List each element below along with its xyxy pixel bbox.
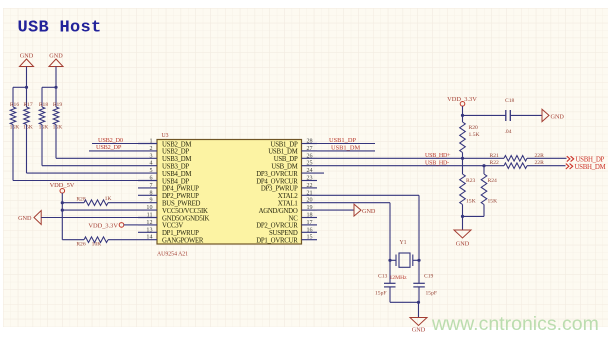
pin 20 XTAL1 [302,202,318,204]
svg-text:Y1: Y1 [400,240,407,246]
wire R23/R24 bottom join [463,215,485,217]
svg-text:XTAL1: XTAL1 [278,201,298,208]
svg-text:GANGPOWER: GANGPOWER [162,238,204,245]
ground GND (C18) [542,109,549,121]
svg-text:13: 13 [146,227,152,233]
junction at GND1 [25,86,28,89]
svg-text:USB1_DP: USB1_DP [329,137,356,144]
svg-text:R26: R26 [76,242,86,248]
wire R22 to port [527,165,566,167]
pin 3 USB3_DM [138,157,157,159]
wire XTAL2 pin 21 [317,194,419,196]
svg-text:DP4_OVRCUR: DP4_OVRCUR [256,178,298,185]
ground GND (crystal) [410,318,427,326]
svg-text:USB1_DM: USB1_DM [331,145,360,152]
svg-text:11: 11 [147,213,153,219]
svg-text:16: 16 [307,227,313,233]
wire GND stem [462,216,464,230]
svg-text:C13: C13 [378,274,388,280]
pin 25 USB_DM [302,165,318,167]
wire pin9 left lead [62,202,84,204]
svg-text:USB1_DM: USB1_DM [268,149,297,156]
junction crystal left [388,259,391,262]
pin 18 NC [302,217,318,219]
svg-text:22: 22 [307,183,313,189]
pin 28 USB1_DP [302,143,318,145]
wire GND to pin 11 [41,217,138,219]
wire R28 to pin 9 [108,202,138,204]
svg-text:DP3_OVRCUR: DP3_OVRCUR [256,171,298,178]
svg-text:U3: U3 [162,133,169,139]
svg-text:1.5K: 1.5K [469,132,480,138]
wire R16 to pin 6 [12,125,14,181]
junction at GND2 [54,86,57,89]
wire R17 top lead [26,87,28,107]
svg-text:R24: R24 [488,178,498,184]
svg-text:VDD_5V: VDD_5V [50,182,75,189]
svg-text:USB1_DP: USB1_DP [271,141,298,148]
svg-text:5: 5 [149,168,152,174]
wire R21 to port [527,157,567,159]
wire to pin 10 [62,209,138,211]
pin 13 DP1_PWRUP [138,231,157,233]
svg-text:9: 9 [149,198,152,204]
svg-text:4: 4 [149,161,152,167]
svg-text:SUSPEND: SUSPEND [269,230,298,237]
svg-text:DP4_PWRUP: DP4_PWRUP [162,186,199,193]
wire branch to R18 [42,86,56,88]
svg-text:15K: 15K [53,125,63,131]
wire XTAL1 pin 20 [317,202,390,204]
svg-text:BUS_PWRED: BUS_PWRED [162,201,201,208]
svg-text:XTAL2: XTAL2 [278,193,299,200]
pin 2 USB2_DP [138,150,157,152]
svg-text:15pF: 15pF [375,290,387,296]
svg-text:15K: 15K [23,125,33,131]
svg-text:22R: 22R [535,160,545,166]
pin 12 VCC3V [138,224,157,226]
svg-text:R22: R22 [490,160,500,166]
pin 1 USB2_DM [138,143,157,145]
svg-text:3: 3 [149,153,152,159]
svg-text:USB3_DM: USB3_DM [162,156,191,163]
svg-text:R16: R16 [10,102,20,108]
svg-text:28: 28 [307,139,313,145]
svg-text:GND: GND [362,208,376,215]
svg-text:8: 8 [149,190,152,196]
port USBH_DM [566,164,573,169]
wire R19 to pin 3 [55,125,57,159]
svg-text:USB_HD-: USB_HD- [425,160,449,166]
svg-text:USB_HD+: USB_HD+ [425,153,451,159]
svg-text:25: 25 [307,161,313,167]
wire VDD_3.3V to pin 12 [124,224,138,226]
svg-text:1K: 1K [105,196,112,202]
wire pin 27 net stub [317,150,375,152]
wire USB_DM line [317,165,504,167]
wire GND2 stem [55,67,57,88]
junction bottom left [461,215,464,218]
wire VDD to C18 [463,114,506,116]
svg-text:C18: C18 [505,98,515,104]
wire R18 to pin 4 [41,125,43,166]
svg-text:VDD_3.3V: VDD_3.3V [88,222,118,229]
svg-text:2: 2 [149,146,152,152]
svg-text:GND: GND [18,215,32,222]
ground GND (pin 19) [317,209,354,211]
svg-text:R17: R17 [23,102,33,108]
pin 26 USB_DP [302,157,318,159]
svg-text:USB Host: USB Host [18,19,102,38]
junction bottom [417,301,420,304]
svg-text:15K: 15K [488,198,498,204]
svg-text:27: 27 [307,146,313,152]
wire pin 28 net stub [317,143,375,145]
wire down to C13 [389,260,391,283]
pin 4 USB3_DP [138,165,157,167]
svg-text:USB2_DP: USB2_DP [96,144,122,151]
wire net USB2_D0 to pin 1 [92,143,138,145]
svg-text:GND5O/GND5IK: GND5O/GND5IK [162,215,210,222]
svg-text:26: 26 [307,153,313,159]
ground GND (R23/R24) [454,230,471,238]
junction crystal right [417,259,420,262]
wire branch to R16 [13,86,27,88]
IC U3 body [157,140,302,245]
svg-text:15K: 15K [10,125,20,131]
svg-text:6: 6 [149,176,152,182]
svg-text:GND: GND [20,53,34,60]
pin 17 DP2_OVRCUR [302,224,318,226]
wire R26 to pin 14 [108,239,138,241]
pin 22 DP3_PWRUP [302,187,318,189]
svg-text:7: 7 [149,183,152,189]
pin 6 USB4_DP [138,180,157,182]
svg-text:.04: .04 [505,129,512,135]
svg-text:19: 19 [307,205,313,211]
wire net USB2_DP to pin 2 [89,150,138,152]
svg-text:10: 10 [146,205,152,211]
wire R19 top lead [55,87,57,107]
svg-text:15: 15 [307,235,313,241]
svg-text:C19: C19 [424,274,434,280]
pin 24 DP3_OVRCUR [302,172,325,174]
junction R24 on DM line [482,164,485,167]
svg-text:R20: R20 [469,125,479,131]
wire C13 bottom [389,287,391,302]
port USBH_DP [567,156,574,161]
wire C19 bottom [418,287,420,302]
pin 19 AGND/GNDO [302,209,318,211]
wire pin14 left lead [62,239,84,241]
pin 23 DP4_OVRCUR [302,180,318,182]
svg-text:USB2_D0: USB2_D0 [98,137,123,144]
junction VDD5V/pin10 [61,209,64,212]
svg-text:USB_DM: USB_DM [271,164,297,171]
pin 14 GANGPOWER [138,239,157,241]
svg-text:R18: R18 [39,102,49,108]
pin 21 XTAL2 [302,194,318,196]
svg-text:AGND/GNDO: AGND/GNDO [259,208,298,215]
svg-text:NC: NC [289,215,299,222]
svg-text:DP1_PWRUP: DP1_PWRUP [162,230,199,237]
svg-text:DP2_PWRUP: DP2_PWRUP [162,193,199,200]
svg-text:USB2_DP: USB2_DP [162,149,189,156]
svg-text:www.cntronics.com: www.cntronics.com [431,313,599,335]
wire R17 to pin 5 [26,125,28,174]
svg-text:USB_DP: USB_DP [274,156,298,163]
junction VDD5V/pin9 [61,201,64,204]
wire GND stem [418,302,420,317]
wire C18 to GND [510,114,542,116]
svg-text:USBH_DM: USBH_DM [575,164,606,171]
svg-text:17: 17 [307,220,313,226]
svg-text:15K: 15K [466,198,476,204]
svg-text:R23: R23 [466,178,476,184]
pin 5 USB4_DM [138,172,157,174]
pin 27 USB1_DM [302,150,318,152]
svg-text:12: 12 [146,220,152,226]
svg-text:21: 21 [307,190,313,196]
svg-text:20: 20 [307,198,313,204]
svg-text:USB2_DM: USB2_DM [162,141,191,148]
svg-text:23: 23 [307,176,313,182]
svg-text:DP3_PWRUP: DP3_PWRUP [261,186,298,193]
svg-text:18: 18 [307,213,313,219]
svg-text:VCC3V: VCC3V [162,223,183,230]
svg-text:GND: GND [551,114,565,121]
pin 16 SUSPEND [302,231,318,233]
wire down to C19 [418,260,420,283]
svg-text:AU9254 A21: AU9254 A21 [157,252,188,258]
junction VDD [461,114,464,117]
pin 9 BUS_PWRED [138,202,157,204]
svg-text:GND: GND [412,327,426,334]
wire bottom join [390,301,419,303]
pin 10 VCC5O/VCC5IK [138,209,157,211]
svg-text:DP2_OVRCUR: DP2_OVRCUR [256,223,298,230]
wire USB_DP line [317,157,504,159]
pin 11 GND5O/GND5IK [138,217,157,219]
svg-text:GND: GND [49,53,63,60]
svg-text:USB4_DM: USB4_DM [162,171,191,178]
svg-text:15K: 15K [39,125,49,131]
svg-text:14: 14 [146,235,152,241]
wire VDD stem [462,106,464,115]
svg-text:15pF: 15pF [426,290,438,296]
svg-text:USB4_DP: USB4_DP [162,178,189,185]
svg-text:DP1_OVRCUR: DP1_OVRCUR [256,238,298,245]
pin 15 DP1_OVRCUR [302,239,318,241]
svg-text:1: 1 [149,139,152,145]
wire GND1 stem [26,67,28,88]
svg-text:R21: R21 [490,153,500,159]
svg-text:USBH_DP: USBH_DP [576,156,605,163]
pin 7 DP4_PWRUP [138,187,157,189]
wire VDD_5V stem [61,193,63,240]
svg-text:12MHz: 12MHz [390,275,408,281]
svg-text:24: 24 [307,168,313,174]
svg-text:GND: GND [456,241,470,248]
svg-text:VCC5O/VCC5IK: VCC5O/VCC5IK [162,208,208,215]
pin 8 DP2_PWRUP [138,194,157,196]
svg-text:USB3_DP: USB3_DP [162,164,189,171]
svg-text:R19: R19 [53,102,63,108]
junction R20/R23 on DP line [461,157,464,160]
